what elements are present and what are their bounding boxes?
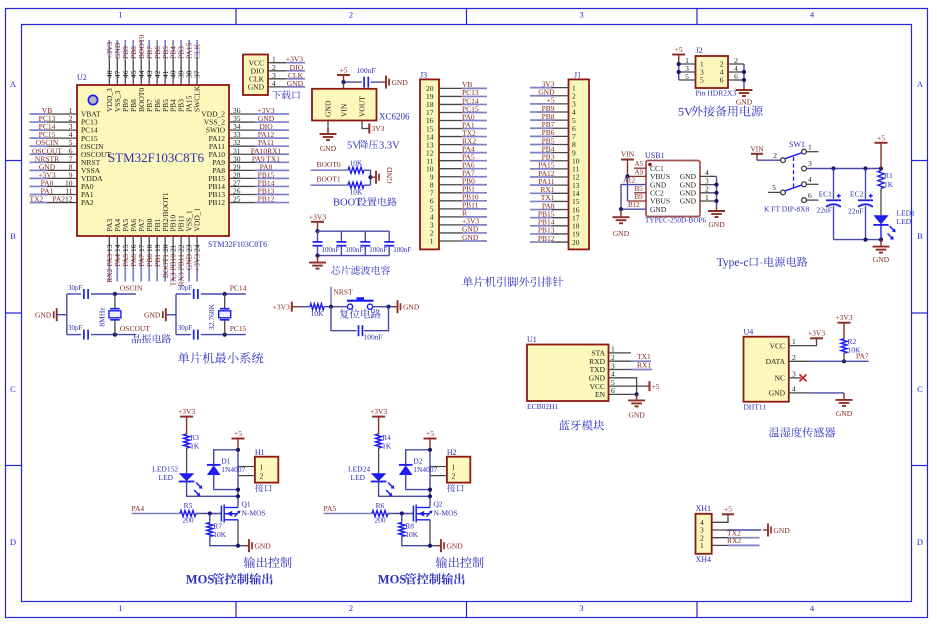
- svg-text:+3V3: +3V3: [178, 407, 195, 416]
- net label NRST vertical stub: [329, 287, 353, 309]
- bottom rail wire: [834, 239, 882, 241]
- svg-text:Q1: Q1: [242, 500, 251, 509]
- svg-text:1: 1: [118, 603, 122, 613]
- svg-text:30pF: 30pF: [68, 284, 83, 292]
- svg-text:GND: GND: [144, 311, 161, 320]
- svg-text:N-MOS: N-MOS: [242, 508, 266, 517]
- LED LED1: [873, 209, 915, 240]
- svg-text:NC: NC: [775, 374, 785, 383]
- left rail wire: [175, 294, 177, 335]
- title: 5V step-down 3.3V: [347, 140, 400, 151]
- wire LED to node: [379, 482, 430, 497]
- svg-text:22uF: 22uF: [848, 207, 863, 216]
- LED LED152: [152, 465, 202, 497]
- title: chip filter capacitors: [331, 266, 390, 275]
- svg-text:EC1: EC1: [819, 189, 833, 198]
- svg-text:1: 1: [260, 462, 264, 471]
- diode D1 1N4007: [207, 457, 246, 476]
- svg-text:1: 1: [430, 237, 434, 246]
- pin VOUT wire to 3V3: [362, 121, 369, 129]
- capacitor 100nF #2: [336, 231, 363, 255]
- power +5 port xh1: [722, 505, 734, 515]
- title: MOS control output: [186, 573, 273, 587]
- J2 right wires to gnd: [728, 56, 746, 88]
- svg-text:5V: 5V: [678, 105, 693, 119]
- resistor R5 200: [180, 501, 196, 525]
- ground bar rotated with GND text: [371, 167, 395, 184]
- connector J2 Pin HDR2X3: [696, 46, 737, 97]
- wire R to LED: [186, 448, 188, 473]
- svg-text:10K: 10K: [311, 309, 325, 318]
- crystal 32.768K: [207, 294, 231, 335]
- svg-text:100nF: 100nF: [322, 246, 340, 254]
- svg-text:BOOT0: BOOT0: [317, 160, 341, 169]
- svg-text:Type-c: Type-c: [717, 257, 749, 269]
- U1 pin2 TX1 wire: [609, 360, 632, 362]
- connector H2: [447, 448, 470, 483]
- svg-text:VOUT: VOUT: [358, 96, 367, 117]
- svg-text:XC6206: XC6206: [379, 112, 410, 122]
- ground bar right of cap: [381, 81, 386, 83]
- top branch wire: [67, 293, 81, 295]
- diode D2 1N4007: [399, 457, 438, 476]
- title: output control: [436, 557, 484, 568]
- svg-text:XH1: XH1: [696, 504, 712, 513]
- J2 left wires from +5: [677, 56, 696, 81]
- svg-text:GND: GND: [836, 409, 853, 418]
- title: temperature humidity sensor: [769, 427, 836, 437]
- svg-text:30pF: 30pF: [68, 324, 83, 332]
- svg-text:GND: GND: [287, 79, 304, 88]
- resistor R7 10K: [207, 514, 227, 540]
- resistor R1 1K: [878, 171, 894, 190]
- svg-text:25: 25: [233, 195, 241, 204]
- svg-text:3: 3: [792, 369, 796, 378]
- svg-text:+5: +5: [877, 133, 885, 142]
- XH1 pin1 wire RX2: [712, 544, 728, 546]
- svg-text:VIN: VIN: [621, 150, 635, 159]
- svg-text:8MHz: 8MHz: [97, 307, 106, 327]
- filter caps bottom rail wire: [318, 255, 390, 257]
- ground bar xh1: [763, 529, 768, 531]
- svg-text:PA2: PA2: [52, 195, 65, 204]
- svg-text:3: 3: [579, 10, 583, 20]
- connector: download port header: [243, 55, 305, 96]
- capacitor 100nF #1: [313, 231, 340, 255]
- svg-text:EN: EN: [595, 390, 606, 399]
- svg-text:+5: +5: [675, 45, 683, 54]
- resistor R8 10K: [399, 514, 419, 540]
- wire R to corner lower: [364, 184, 371, 186]
- svg-text:1K: 1K: [190, 442, 200, 451]
- ground bar mos: [244, 545, 249, 547]
- U1 pin1 STA wire: [609, 352, 632, 354]
- svg-text:2: 2: [773, 151, 777, 160]
- svg-text:B: B: [10, 231, 16, 241]
- svg-text:24: 24: [193, 244, 202, 252]
- svg-text:PA2: PA2: [81, 198, 94, 207]
- bottom branch wire: [67, 334, 81, 336]
- title: crystal circuit: [132, 334, 171, 343]
- svg-text:GND: GND: [385, 167, 394, 184]
- wire R2 to DATA: [843, 353, 845, 361]
- transistor Q2 N-MOS: [413, 500, 457, 523]
- diode loop wires: [406, 450, 430, 465]
- svg-text:Q2: Q2: [434, 500, 443, 509]
- wire +5 to cap: [344, 81, 362, 83]
- svg-text:GND: GND: [462, 233, 479, 242]
- svg-text:TX2: TX2: [30, 195, 44, 204]
- resistor R4 1K: [376, 433, 392, 451]
- svg-text:SWCLK: SWCLK: [193, 85, 202, 112]
- USB1 left pin wires: [619, 160, 646, 211]
- svg-text:6: 6: [720, 76, 724, 85]
- wire button to gnd: [373, 306, 394, 308]
- title: Type-c power circuit: [717, 257, 808, 269]
- svg-text:12: 12: [65, 195, 73, 204]
- XH1 pin3 wire to gnd: [712, 529, 728, 531]
- svg-text:4: 4: [272, 79, 276, 88]
- svg-text:N-MOS: N-MOS: [434, 508, 458, 517]
- capacitor 100nF bypass: [356, 66, 375, 88]
- svg-text:ECB02H1: ECB02H1: [527, 402, 559, 411]
- svg-text:20: 20: [572, 238, 580, 247]
- svg-text:DATA: DATA: [766, 357, 786, 366]
- svg-text:GND: GND: [613, 229, 630, 238]
- capacitor 30pF bottom: [178, 324, 198, 339]
- svg-text:+5: +5: [652, 382, 660, 391]
- power +3V3 port dht: [808, 329, 825, 339]
- resistor R3 1K: [184, 433, 200, 451]
- svg-text:OSCIN: OSCIN: [120, 284, 143, 293]
- wire BOOT0: [311, 169, 349, 171]
- svg-text:GND: GND: [248, 83, 265, 92]
- resistor 10K lower: [348, 182, 364, 196]
- svg-text:100nF: 100nF: [356, 66, 375, 75]
- main node vertical wire: [237, 450, 239, 506]
- regulator U3 XC6206 body: [312, 89, 410, 122]
- U4 NC wire with no-connect X: [789, 377, 801, 379]
- capacitor 30pF top: [178, 284, 198, 299]
- wire PA to R: [132, 513, 181, 515]
- power port 3V3: [369, 124, 384, 134]
- ground bar mos: [436, 545, 441, 547]
- svg-text:MOS: MOS: [186, 573, 215, 587]
- svg-text:GND: GND: [628, 411, 645, 420]
- svg-text:2: 2: [792, 353, 796, 362]
- svg-text:DHT11: DHT11: [744, 403, 767, 412]
- svg-text:XH4: XH4: [696, 555, 712, 564]
- crystal 8MHz: [97, 294, 121, 335]
- svg-text:10K: 10K: [848, 346, 862, 355]
- U4 GND wire: [789, 392, 810, 394]
- svg-text:200: 200: [374, 516, 386, 525]
- svg-text:H1: H1: [255, 448, 265, 457]
- svg-text:RX2: RX2: [727, 536, 741, 545]
- bottom branch wire: [176, 334, 191, 336]
- push button reset: [347, 297, 374, 309]
- svg-text:+3V3: +3V3: [193, 254, 202, 271]
- svg-text:GND: GND: [255, 542, 272, 551]
- capacitor 30pF top: [68, 284, 88, 299]
- ground under dht: [843, 393, 845, 400]
- svg-text:K FT DIP-8X8: K FT DIP-8X8: [764, 204, 810, 213]
- main node vertical wire: [429, 450, 431, 506]
- ground bar reset: [393, 306, 398, 308]
- ground right of USB1: [716, 208, 718, 211]
- H pin wires: [430, 466, 447, 468]
- capacitor EC2 22uF: [848, 169, 873, 240]
- U2 right pins 36-25 with net labels: [201, 106, 289, 207]
- svg-text:1: 1: [118, 10, 122, 20]
- wire R 10K to gnd row: [210, 537, 244, 546]
- power port VIN (usb): [621, 150, 635, 177]
- switch SW1: [764, 140, 819, 213]
- left rail wire: [66, 294, 68, 335]
- svg-text:A9: A9: [635, 168, 644, 176]
- op-amp/IC U2 STM32F103C8T6 body: [77, 73, 267, 249]
- svg-text:6: 6: [808, 191, 812, 200]
- svg-text:30pF: 30pF: [178, 324, 193, 332]
- svg-text:BOOT: BOOT: [333, 198, 362, 209]
- svg-text:1: 1: [792, 337, 796, 346]
- svg-text:3: 3: [579, 603, 583, 613]
- wire cap to gnd: [371, 81, 381, 83]
- connector H1: [255, 448, 278, 483]
- svg-text:1: 1: [808, 142, 812, 151]
- svg-text:U4: U4: [744, 328, 754, 337]
- resistor 10K pullup: [310, 304, 324, 318]
- svg-text:C: C: [10, 384, 16, 394]
- svg-text:+3V3: +3V3: [370, 407, 387, 416]
- wire sw pin3 to power rail: [807, 168, 882, 170]
- svg-text:NRST: NRST: [334, 288, 354, 297]
- svg-text:6: 6: [734, 72, 738, 81]
- svg-text:GND: GND: [736, 98, 753, 107]
- svg-text:GND: GND: [769, 389, 786, 398]
- ground under rail: [880, 240, 882, 247]
- svg-text:GND: GND: [774, 526, 791, 535]
- svg-text:GND: GND: [403, 303, 420, 312]
- svg-text:GND: GND: [320, 144, 337, 153]
- wire LED to node: [187, 482, 238, 497]
- svg-text:VDD_1: VDD_1: [193, 208, 202, 232]
- svg-text:1: 1: [705, 193, 709, 202]
- ground left of USB1: [620, 209, 622, 217]
- svg-text:GND: GND: [447, 542, 464, 551]
- resistor R2 10K pullup: [841, 337, 861, 355]
- svg-text:EC2: EC2: [850, 189, 864, 198]
- svg-text:PB12: PB12: [258, 195, 275, 204]
- svg-text:GND: GND: [873, 255, 890, 264]
- svg-text:USB1: USB1: [645, 151, 665, 160]
- H pin wires: [238, 466, 255, 468]
- label: connector port: [255, 484, 272, 492]
- diode loop wires: [214, 450, 238, 465]
- bottom loop with cap: [331, 307, 357, 331]
- svg-text:STM32F103C8T6: STM32F103C8T6: [108, 150, 205, 165]
- power port VIN (switch): [750, 145, 780, 161]
- ground under bluetooth: [636, 394, 638, 400]
- transistor Q1 N-MOS: [221, 500, 265, 523]
- svg-text:4: 4: [792, 384, 796, 393]
- svg-text:PB12: PB12: [538, 234, 555, 243]
- svg-text:A12: A12: [623, 177, 636, 185]
- svg-text:4: 4: [808, 175, 812, 184]
- svg-text:100nF: 100nF: [364, 332, 383, 341]
- svg-text:VIN: VIN: [750, 145, 764, 154]
- USB1 right pin wires: [700, 168, 719, 208]
- ground bar left: [56, 308, 58, 321]
- svg-text:100nF: 100nF: [393, 246, 411, 254]
- svg-text:1K: 1K: [382, 442, 392, 451]
- title: MOS control output: [378, 573, 465, 587]
- capacitor 100nF #4: [384, 231, 411, 255]
- connector XH1: [696, 504, 712, 564]
- svg-text:PA5: PA5: [324, 504, 337, 513]
- svg-text:1K: 1K: [884, 180, 894, 189]
- svg-text:GND: GND: [650, 205, 667, 214]
- svg-text:A5: A5: [635, 160, 644, 168]
- U4 VCC wire to +3V3: [789, 338, 817, 345]
- XH1 pin4 wire to +5: [712, 514, 728, 522]
- LED LED24: [348, 465, 394, 497]
- svg-text:MOS: MOS: [378, 573, 407, 587]
- connector J1 20-pin: [530, 71, 589, 250]
- wire R to LED: [378, 448, 380, 473]
- ground bar left: [165, 308, 167, 321]
- svg-text:10K: 10K: [213, 530, 227, 539]
- svg-text:32.768K: 32.768K: [207, 303, 216, 330]
- svg-text:+5: +5: [426, 429, 434, 438]
- svg-text:U1: U1: [527, 335, 537, 344]
- svg-text:J1: J1: [574, 71, 581, 80]
- svg-text:2: 2: [349, 603, 353, 613]
- svg-text:H2: H2: [447, 448, 457, 457]
- svg-text:RX1: RX1: [637, 361, 651, 370]
- svg-text:GND: GND: [392, 78, 409, 87]
- filter caps top rail wire: [318, 230, 390, 232]
- svg-text:OSCOUT: OSCOUT: [120, 324, 150, 333]
- title: download port: [272, 90, 300, 99]
- svg-text:200: 200: [182, 516, 194, 525]
- svg-text:C: C: [917, 384, 923, 394]
- resistor 10K upper: [348, 159, 364, 174]
- XH1 pin2 wire TX2: [712, 537, 728, 539]
- svg-text:R1: R1: [884, 171, 893, 180]
- pin VIN stub: [343, 82, 345, 89]
- IC U4 DHT11 body: [744, 328, 797, 412]
- U4 DATA wire to PA7: [789, 360, 810, 362]
- wire R to gate: [196, 513, 221, 515]
- svg-text:22uF: 22uF: [817, 205, 832, 214]
- svg-text:30pF: 30pF: [178, 284, 193, 292]
- U1 pin6 EN wire: [609, 393, 637, 395]
- U2 left pins 1-12 with net labels: [30, 106, 112, 207]
- svg-text:3V3: 3V3: [372, 124, 385, 133]
- svg-text:+3V3: +3V3: [273, 303, 290, 312]
- svg-text:+3V3: +3V3: [835, 313, 852, 322]
- svg-text:SW1: SW1: [789, 140, 805, 149]
- wire R to corner: [364, 170, 371, 185]
- svg-text:B: B: [917, 231, 923, 241]
- svg-text:U2: U2: [77, 73, 87, 82]
- svg-text:100nF: 100nF: [369, 246, 387, 254]
- capacitor EC1 22uF: [817, 169, 842, 240]
- svg-text:J3: J3: [420, 71, 427, 80]
- svg-text:3: 3: [808, 159, 812, 168]
- svg-text:10K: 10K: [350, 188, 364, 197]
- wire gnd to rail: [57, 314, 67, 316]
- svg-text:GND: GND: [680, 197, 697, 206]
- wire R1 to LED1: [880, 189, 882, 216]
- title: 5V external backup power: [678, 105, 763, 119]
- svg-text:Pin HDR2X3: Pin HDR2X3: [696, 88, 737, 97]
- svg-text:VCC: VCC: [770, 341, 785, 350]
- ground symbol under regulator: [327, 128, 329, 134]
- drain/source wires: [237, 506, 239, 508]
- svg-text:B12: B12: [628, 201, 640, 209]
- title: reset circuit: [340, 309, 381, 319]
- svg-text:STM32F103C8T6: STM32F103C8T6: [208, 240, 267, 249]
- svg-text:GND: GND: [324, 100, 333, 117]
- svg-text:10K: 10K: [405, 530, 419, 539]
- wire R to gate: [388, 513, 413, 515]
- U1 pin3 RX1 wire: [609, 369, 632, 371]
- wire R 10K to gnd row: [402, 537, 436, 546]
- title: BOOT setup circuit: [333, 197, 397, 208]
- svg-text:D: D: [10, 537, 16, 547]
- svg-text:D: D: [917, 537, 923, 547]
- svg-text:TYPEC-250D-BOP6: TYPEC-250D-BOP6: [645, 217, 707, 225]
- svg-text:LED: LED: [897, 217, 912, 226]
- svg-text:100nF: 100nF: [345, 246, 363, 254]
- capacitor 100nF reset: [359, 325, 383, 341]
- ground under filter caps: [317, 256, 319, 263]
- svg-text:B9: B9: [635, 193, 644, 201]
- svg-text:+5: +5: [724, 505, 732, 514]
- svg-text:GND: GND: [708, 220, 725, 229]
- svg-text:+5: +5: [340, 66, 348, 75]
- wire BOOT1: [311, 184, 349, 186]
- svg-text:PB12: PB12: [208, 198, 225, 207]
- svg-text:37: 37: [193, 70, 202, 78]
- svg-text:R6: R6: [376, 501, 385, 510]
- svg-text:A: A: [917, 79, 924, 89]
- svg-text:3.3V: 3.3V: [379, 140, 400, 151]
- svg-text:GND: GND: [35, 311, 52, 320]
- wire PA to R: [324, 513, 373, 515]
- svg-text:2: 2: [452, 472, 456, 481]
- svg-text:10K: 10K: [350, 159, 364, 168]
- svg-text:PA4: PA4: [132, 504, 145, 513]
- resistor R6 200: [372, 501, 388, 525]
- title: output control: [244, 557, 292, 568]
- wire gnd to rail: [166, 314, 176, 316]
- U2 bottom pins 13-24 with net labels: [105, 192, 202, 286]
- top branch wire: [176, 293, 191, 295]
- title: bluetooth module: [559, 420, 604, 431]
- svg-text:LED: LED: [351, 473, 366, 482]
- ground under J2: [743, 88, 745, 90]
- svg-text:5: 5: [700, 76, 704, 85]
- svg-text:1: 1: [700, 541, 704, 550]
- svg-text:5: 5: [772, 183, 776, 192]
- svg-text:5V: 5V: [347, 140, 360, 151]
- capacitor 100nF #3: [360, 231, 387, 255]
- label: connector port: [447, 484, 464, 492]
- pin GND stub down: [327, 121, 329, 135]
